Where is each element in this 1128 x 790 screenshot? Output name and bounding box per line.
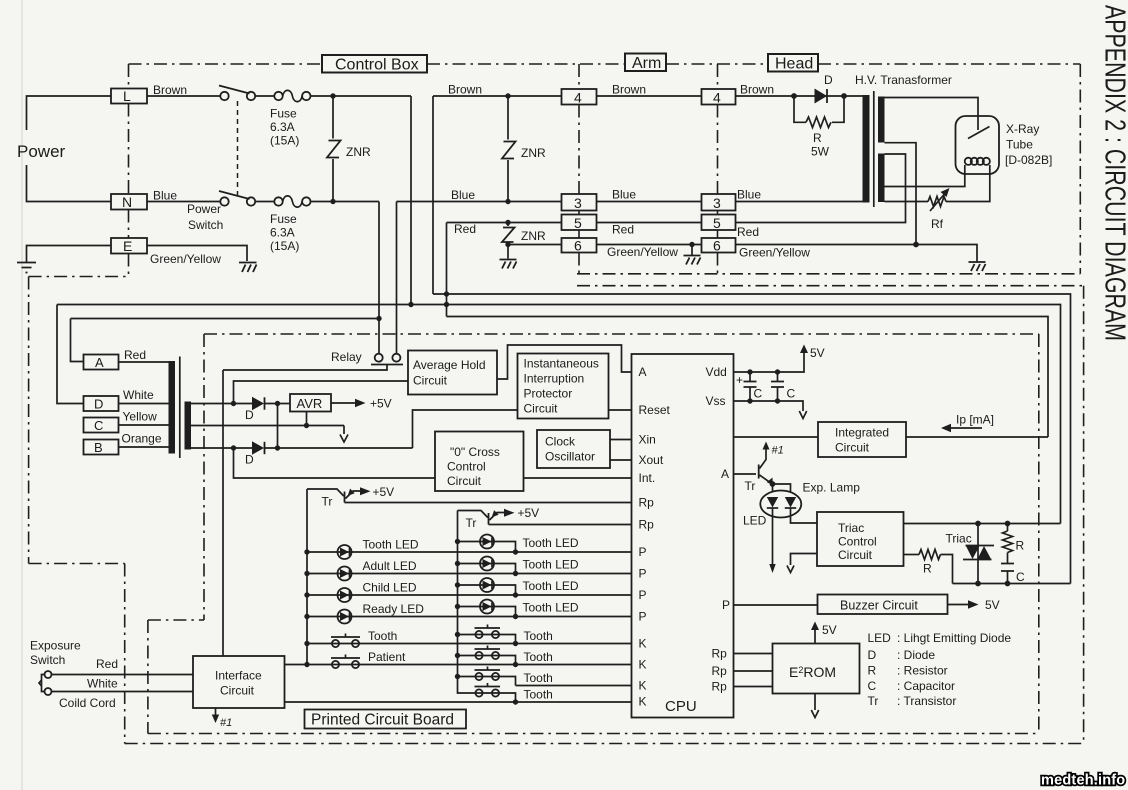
PCB dash-dot border left upper edge [203, 334, 205, 620]
junction D1 cathode [275, 401, 280, 406]
terminal B [84, 440, 119, 455]
junction diode D left [791, 93, 797, 99]
svg-text:Triac: Triac [838, 521, 864, 535]
terminal C [84, 418, 119, 433]
LED tooth right r2 [480, 557, 494, 571]
svg-text:ZNR: ZNR [346, 145, 371, 159]
outer dash-dot border lower-left edge [124, 564, 126, 744]
capacitor C2 [771, 372, 784, 401]
svg-text:LED: LED [868, 631, 892, 645]
svg-text:Interface: Interface [215, 669, 262, 683]
P row 4 wire [307, 616, 632, 618]
Tr2 base bar [488, 513, 490, 525]
center tap down arrow [340, 426, 348, 443]
junction D2 cathode [275, 445, 280, 450]
svg-text:C: C [868, 679, 877, 693]
HV transformer secondary top winding bar [878, 97, 885, 143]
svg-text:Green/Yellow: Green/Yellow [150, 252, 221, 266]
HV transformer core [873, 91, 875, 207]
svg-text:Integrated: Integrated [835, 426, 889, 440]
P row 2 wire [307, 573, 632, 575]
svg-text:LED: LED [743, 514, 767, 528]
mid wire green/yellow [597, 244, 702, 246]
zero cross box [435, 432, 524, 492]
svg-text:K: K [639, 679, 647, 693]
svg-text:3: 3 [574, 195, 582, 211]
svg-text:Circuit: Circuit [835, 441, 870, 455]
K row 3 wire [516, 685, 632, 687]
svg-text:Tooth LED: Tooth LED [523, 601, 579, 615]
svg-text:APPENDIX 2 : CIRCUIT DIAGRAM: APPENDIX 2 : CIRCUIT DIAGRAM [1099, 5, 1128, 341]
svg-text:Tooth LED: Tooth LED [523, 579, 579, 593]
svg-text:+5V: +5V [518, 506, 540, 520]
head section right dash-dot border [1079, 64, 1081, 274]
svg-text:Buzzer Circuit: Buzzer Circuit [840, 599, 918, 613]
svg-text:Tr: Tr [868, 694, 879, 708]
junction w2 at brown drop [408, 302, 413, 307]
svg-text:Blue: Blue [451, 188, 475, 202]
blue arm drop to relay contact 2 [396, 202, 398, 354]
connector arm pin 4 [562, 89, 597, 105]
control box top dash-dot border [129, 63, 1081, 65]
svg-text:Rf: Rf [931, 217, 944, 231]
svg-text:K: K [639, 695, 647, 709]
svg-text:6: 6 [574, 238, 582, 254]
svg-text:6: 6 [713, 238, 721, 254]
Arm label box [625, 54, 666, 72]
w2 left drop to terminal D [57, 305, 84, 404]
svg-text:Tooth LED: Tooth LED [363, 538, 419, 552]
switch tooth left [331, 634, 360, 648]
wire switch to fuse 2 [255, 201, 275, 203]
svg-text:R: R [868, 664, 877, 678]
svg-text:D: D [824, 73, 833, 87]
svg-text:Yellow: Yellow [123, 410, 158, 424]
PCB dash-dot border left lower edge [147, 620, 149, 734]
svg-text:C: C [1016, 570, 1025, 584]
exp lamp LED 1 [767, 497, 778, 508]
svg-text:Protector: Protector [524, 387, 573, 401]
svg-text:Brown: Brown [740, 83, 774, 97]
connector arm pin 5 [562, 215, 597, 231]
svg-text:D: D [245, 408, 254, 422]
svg-text:R: R [1016, 539, 1025, 553]
resistor R 5W zigzag [806, 117, 831, 128]
svg-text:Red: Red [96, 657, 118, 671]
svg-text:E2ROM: E2ROM [789, 664, 836, 680]
outer dash-dot border bottom edge [125, 743, 1084, 745]
slanted ground below mid green/yellow [691, 245, 693, 256]
triac bottom rail [953, 583, 1071, 585]
Tr2 collector wire [458, 511, 488, 518]
wire w1 brown-arm to triac bottom [433, 294, 1071, 584]
svg-text:Rp: Rp [712, 647, 728, 661]
varistor ZNR1 [327, 96, 341, 202]
svg-text:Blue: Blue [737, 188, 761, 202]
interface down arrow #1 [215, 708, 217, 716]
svg-text:[D-082B]: [D-082B] [1005, 153, 1052, 167]
E2ROM Rp wire 3 [734, 686, 773, 688]
junction ZNR3 at green/yellow [505, 242, 510, 247]
junction ZNR2 top [505, 93, 510, 98]
terminal L [111, 89, 147, 104]
P row 3 wire [307, 594, 632, 596]
svg-text:Rp: Rp [712, 664, 728, 678]
tube filament coil [965, 158, 990, 165]
svg-text:Tr: Tr [745, 479, 756, 493]
wire green/yellow to connector 6 [508, 244, 562, 246]
svg-text:Brown: Brown [153, 83, 187, 97]
wire B to primary [119, 446, 169, 448]
riser D2 anode to int wire [234, 448, 436, 478]
left LED bus [306, 489, 308, 665]
wire head red riser to secondary bottom top [736, 154, 906, 223]
svg-text:6.3A: 6.3A [270, 120, 295, 134]
svg-text:Red: Red [737, 225, 759, 239]
svg-text:Oscillator: Oscillator [545, 450, 595, 464]
junction diode D right [841, 93, 847, 99]
svg-text:: Capacitor: : Capacitor [897, 679, 955, 693]
control box left dash-dot edge through L N E [128, 64, 130, 277]
buzzer 5V arrow [948, 604, 970, 606]
varistor ZNR2 [502, 96, 516, 202]
connector head pin 5 [702, 215, 736, 231]
svg-text:(15A): (15A) [270, 134, 299, 148]
svg-text:H.V. Tranasformer: H.V. Tranasformer [855, 73, 952, 87]
E2ROM down open arrow [814, 694, 816, 711]
secondary center tap wire [191, 425, 344, 427]
svg-text:5V: 5V [822, 623, 837, 637]
svg-text:Exp. Lamp: Exp. Lamp [803, 481, 861, 495]
K row 3 branch [458, 677, 516, 686]
wire E to left ground [27, 246, 112, 263]
svg-text:medteh.info: medteh.info [1041, 773, 1125, 789]
svg-text:Vss: Vss [706, 394, 726, 408]
Ip wire into IC [906, 436, 1048, 438]
svg-text:B: B [94, 440, 103, 455]
wire switch to fuse 1 [255, 95, 275, 97]
LED ready left [338, 610, 352, 624]
CPU box [632, 354, 734, 718]
svg-text:Patient: Patient [368, 650, 406, 664]
junction D2 anode [231, 445, 236, 450]
wire CPU P to buzzer [734, 604, 818, 606]
P row 2 branch [458, 564, 516, 574]
slanted ground head [969, 262, 986, 271]
Tr2 emitter arrow [490, 513, 506, 521]
Clock Oscillator box [537, 430, 610, 468]
svg-text:Tr: Tr [322, 495, 333, 509]
svg-text:Instantaneous: Instantaneous [524, 357, 599, 371]
wire D2 cathode row [265, 447, 413, 449]
wire D1 to AVR [265, 403, 291, 405]
resistor R 5W bypass loop [794, 96, 844, 122]
Average Hold Circuit box [408, 351, 497, 395]
svg-text:Child LED: Child LED [363, 581, 417, 595]
svg-text:Tooth: Tooth [368, 629, 397, 643]
power switch pole 1 [219, 86, 255, 101]
svg-text:K: K [639, 637, 647, 651]
outer dash-dot border top-right segment [577, 285, 1084, 287]
svg-text:P: P [639, 610, 647, 624]
svg-text:Tube: Tube [1006, 138, 1033, 152]
HV transformer primary winding bar [863, 95, 870, 203]
junction bus2 at relay riser [376, 316, 381, 321]
Vss down open arrow [799, 411, 806, 419]
wire head blue to transformer primary bottom [736, 201, 863, 203]
svg-text:D: D [245, 453, 254, 467]
svg-text:Xin: Xin [639, 433, 656, 447]
triac symbol [963, 524, 994, 584]
svg-text:: Diode: : Diode [897, 648, 935, 662]
variable resistor Rf zigzag [928, 197, 946, 207]
K row 4 wire [285, 701, 632, 703]
terminal A [84, 355, 119, 370]
relay armature bar [371, 364, 403, 366]
head section bottom dash-dot border [577, 273, 1080, 275]
bus2 left drop to terminal A [71, 319, 84, 362]
riser D1 anode to average hold [234, 381, 409, 404]
wire blue arm from relay riser to connector 3 [397, 201, 563, 203]
snubber resistor R vertical [1007, 524, 1009, 532]
svg-text:Brown: Brown [612, 83, 646, 97]
svg-text:Control Box: Control Box [335, 57, 419, 74]
svg-text:+: + [736, 373, 743, 387]
mid wire red [597, 222, 702, 224]
wire w3 to integrated circuit [447, 317, 1049, 438]
svg-text:4: 4 [574, 90, 582, 106]
svg-text:Tooth LED: Tooth LED [523, 536, 579, 550]
tube anode [968, 127, 990, 139]
svg-text:6.3A: 6.3A [270, 226, 295, 240]
bus2 A-winding to relay [71, 318, 380, 320]
Vdd wire [734, 352, 805, 372]
svg-text:Interruption: Interruption [524, 372, 585, 386]
svg-text:P: P [639, 567, 647, 581]
svg-text:Red: Red [454, 222, 476, 236]
diode D head [815, 89, 828, 104]
LV transformer primary bar [169, 361, 176, 454]
relay stub to coil wire [223, 365, 387, 371]
svg-text:ZNR: ZNR [521, 146, 546, 160]
wire CPU to integrated circuit [734, 436, 819, 438]
K row 2 branch [458, 656, 516, 665]
svg-text:D: D [94, 397, 103, 412]
svg-text:Vdd: Vdd [706, 365, 727, 379]
svg-text:: Transistor: : Transistor [897, 694, 956, 708]
arm boundary dash-dot vertical [578, 64, 580, 274]
junction ZNR2 bottom [505, 199, 510, 204]
svg-text:Rp: Rp [712, 680, 728, 694]
svg-text:N: N [122, 194, 132, 210]
LED tooth left [338, 545, 352, 559]
exposure switch contacts [39, 671, 52, 695]
Triac Control Circuit box [817, 512, 904, 566]
svg-text:+5V: +5V [370, 397, 392, 411]
Tr1 base wire to Rp1 [345, 502, 632, 504]
junction Tr emitter LED [770, 481, 776, 487]
K row 1 branch [458, 635, 516, 644]
wire clock to Xin [610, 439, 632, 441]
outer dash-dot border top-left segment [29, 276, 129, 278]
triac control lower left wire with open arrow [791, 554, 818, 566]
Rf arrow [930, 191, 947, 211]
svg-text:D: D [868, 648, 877, 662]
svg-text:AVR: AVR [297, 396, 323, 411]
svg-text:White: White [123, 388, 154, 402]
svg-text:X-Ray: X-Ray [1006, 122, 1039, 136]
svg-text:Switch: Switch [30, 653, 65, 667]
svg-text:Red: Red [612, 223, 634, 237]
wire average hold to CPU A [497, 345, 632, 379]
switch tooth right r4 [475, 683, 501, 697]
svg-text:Average Hold: Average Hold [413, 358, 486, 372]
switch tooth right r1 [475, 625, 501, 639]
svg-text:P: P [639, 545, 647, 559]
junction D1 anode [231, 401, 236, 406]
red drop wire w3 vertical [446, 223, 448, 317]
AVR box [290, 394, 331, 412]
svg-text:Tr: Tr [466, 516, 477, 530]
svg-text:R: R [923, 562, 932, 576]
svg-text:Rp: Rp [639, 518, 655, 532]
exp lamp ellipse [760, 491, 801, 518]
wire secondary bottom to Rf [885, 201, 929, 203]
svg-text:Blue: Blue [612, 188, 636, 202]
junction green/yellow mid ground [689, 242, 694, 247]
wire exposure white [52, 691, 194, 693]
svg-text:A: A [721, 467, 729, 481]
wire head green/yellow [736, 245, 978, 262]
svg-text:5V: 5V [985, 598, 1000, 612]
svg-text:#1: #1 [772, 445, 784, 457]
Tr1 emitter arrow [346, 491, 362, 499]
svg-text:Circuit: Circuit [838, 548, 873, 562]
svg-text:Tooth: Tooth [524, 650, 553, 664]
svg-text:R: R [813, 131, 822, 145]
Buzzer Circuit box [818, 595, 948, 615]
E2ROM Rp wire 2 [734, 670, 773, 672]
LV transformer core [179, 357, 181, 459]
fuse F1 6.3A [274, 90, 310, 101]
LED2 cathode to triac control [791, 508, 818, 523]
svg-text:White: White [87, 677, 118, 691]
interface riser [222, 370, 224, 656]
E2ROM box [773, 644, 860, 694]
exp lamp LED 2 [785, 497, 796, 508]
Tr1 collector wire [307, 489, 344, 496]
slanted ground at E right [239, 263, 257, 273]
terminal E [111, 238, 147, 254]
P row 3 branch [458, 585, 516, 595]
svg-text:K: K [639, 658, 647, 672]
svg-text:Exposure: Exposure [30, 639, 81, 653]
switch gang dashed link [237, 101, 239, 197]
svg-text:Green/Yellow: Green/Yellow [739, 246, 810, 260]
x-ray tube envelope [956, 116, 1000, 174]
LED child left [338, 588, 352, 602]
power bracket wire N [27, 165, 112, 202]
svg-text:CPU: CPU [665, 698, 697, 715]
switch tooth right r2 [475, 646, 501, 660]
svg-text:Switch: Switch [188, 218, 223, 232]
exp lamp wiring [773, 484, 791, 492]
wire E to right ground [147, 246, 247, 262]
svg-text:Rp: Rp [639, 496, 655, 510]
E2ROM 5V arrow [814, 629, 816, 644]
svg-text:Xout: Xout [639, 453, 664, 467]
svg-text:Int.: Int. [639, 471, 656, 485]
wire clock to Xout [610, 459, 632, 461]
wire instantaneous to CPU reset [609, 409, 632, 411]
diode D1 [252, 397, 265, 410]
connector arm pin 6 [562, 238, 597, 253]
varistor ZNR3 [502, 223, 515, 259]
svg-text:A: A [639, 365, 647, 379]
Interface circuit box [193, 656, 285, 708]
svg-text:Circuit: Circuit [447, 474, 482, 488]
svg-text:4: 4 [713, 90, 721, 106]
HV transformer secondary bottom winding bar [878, 154, 885, 203]
wire C to primary [119, 424, 169, 426]
LV transformer secondary bar [185, 402, 192, 450]
outer dash-dot border left jog [29, 563, 125, 565]
right LED bus [458, 511, 476, 694]
svg-text:3: 3 [713, 195, 721, 211]
AVR output arrow +5V [331, 402, 356, 404]
junction at ZNR1 top [330, 93, 335, 98]
svg-text:5: 5 [574, 215, 582, 231]
svg-text:Power: Power [187, 202, 221, 216]
svg-text:Control: Control [447, 460, 486, 474]
svg-text:Arm: Arm [632, 55, 661, 72]
junction ZNR3 top [505, 220, 510, 225]
junction w2 at red drop [444, 302, 449, 307]
wire secondary top to tube anode [885, 98, 979, 131]
ground at power E [17, 263, 36, 273]
switch patient left [331, 655, 360, 669]
svg-text:Fuse: Fuse [270, 212, 297, 226]
Tr2 +5V arrow [504, 509, 515, 517]
wire CPU A to Tr#1 [734, 473, 757, 475]
svg-text:P: P [639, 588, 647, 602]
LED tooth right r1 [480, 535, 494, 549]
K row 4 branch [475, 693, 515, 702]
Ip arrow [950, 427, 982, 429]
Head label box [768, 54, 818, 72]
svg-text:C: C [787, 387, 796, 401]
svg-text:Green/Yellow: Green/Yellow [607, 245, 678, 259]
svg-text:Tooth: Tooth [524, 671, 553, 685]
Vss wire [734, 401, 804, 411]
svg-text:Head: Head [775, 56, 813, 73]
svg-text:(15A): (15A) [270, 239, 299, 253]
brown arm drop to w1 [432, 96, 434, 294]
AVR bottom tap [306, 412, 308, 426]
junction at ZNR1 bottom [330, 199, 335, 204]
P row 1 wire [307, 551, 632, 553]
wire secondary filament tap to tube [885, 165, 965, 187]
svg-text:ZNR: ZNR [521, 229, 546, 243]
svg-text:Clock: Clock [545, 435, 576, 449]
svg-text:Red: Red [124, 348, 146, 362]
connector arm pin 3 [562, 194, 597, 211]
outer dash-dot border upper-left edge [28, 277, 30, 564]
Tr2 base wire to Rp2 [489, 524, 632, 526]
svg-text:Control: Control [838, 535, 877, 549]
wire L to switch [147, 95, 221, 97]
LED adult left [338, 567, 352, 581]
